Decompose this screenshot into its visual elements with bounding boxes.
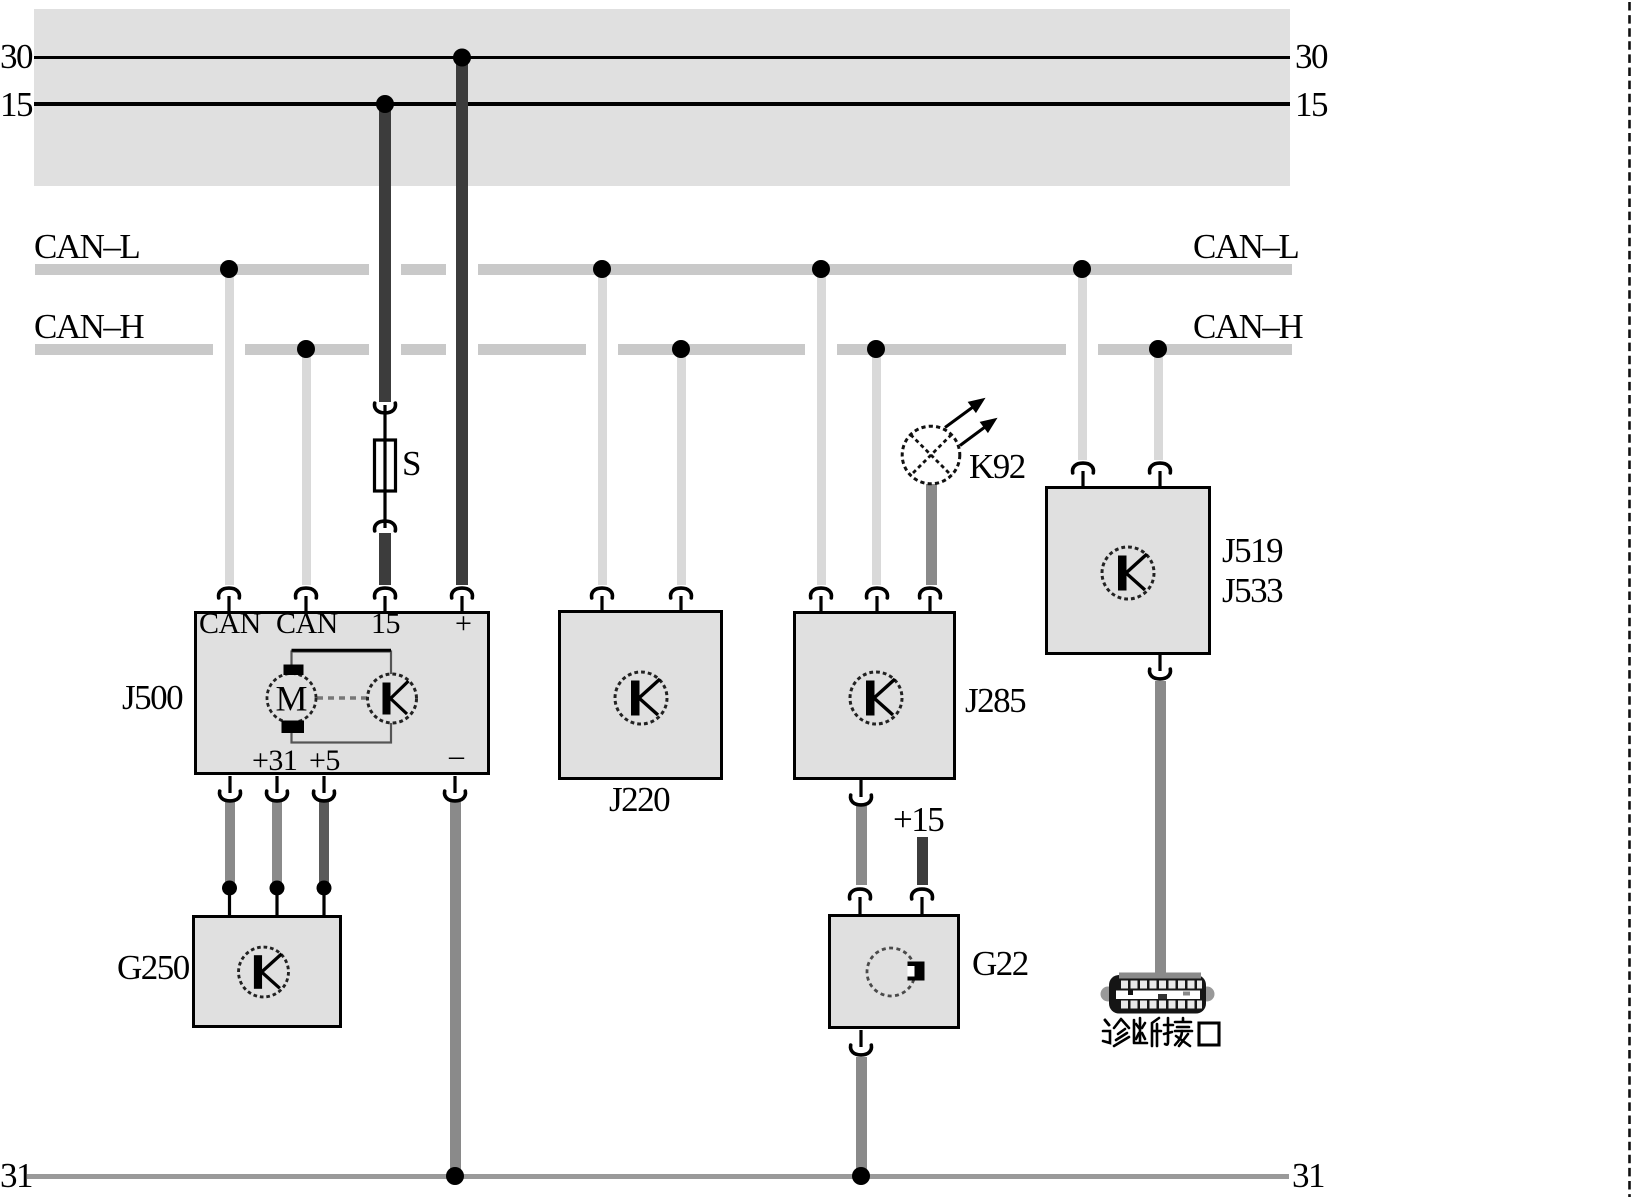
svg-text:M: M: [275, 679, 307, 719]
